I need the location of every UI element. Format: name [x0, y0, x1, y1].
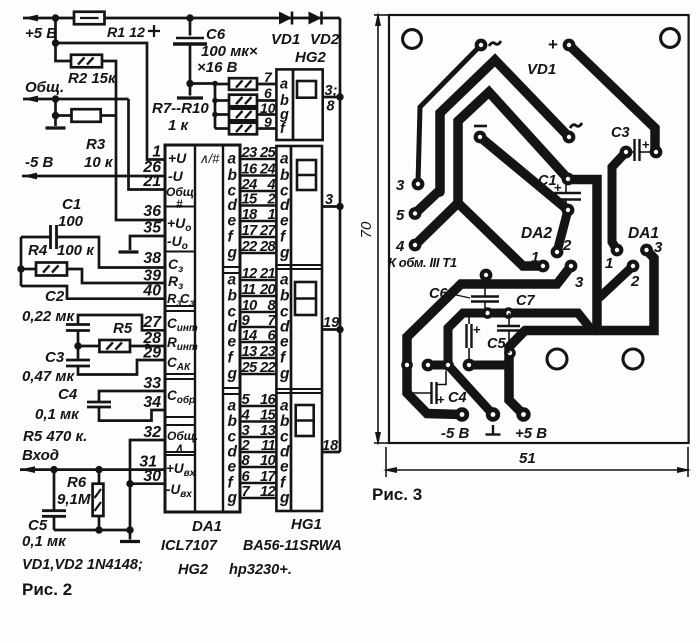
svg-text:40: 40 [142, 283, 161, 300]
wire Общ to pin 21 [52, 95, 165, 189]
op-amp U DA1 ICL7107 IC body [165, 145, 240, 512]
svg-text:11: 11 [261, 438, 275, 454]
wire Общ down to R3 left [52, 99, 72, 126]
svg-text:1: 1 [605, 255, 613, 272]
svg-text:a: a [280, 151, 289, 168]
mounting hole bottom right [623, 349, 643, 369]
svg-text:10 к: 10 к [84, 154, 114, 171]
svg-text:DA2: DA2 [521, 225, 552, 242]
label HG1 BA56-11SRWA [243, 516, 342, 554]
resistor R10 [229, 114, 276, 134]
pad C5 [463, 359, 476, 372]
pad DA2 pin3 [565, 260, 584, 291]
pad C1 bottom [562, 204, 575, 217]
svg-text:VD1: VD1 [527, 61, 556, 78]
svg-text:0,1 мк: 0,1 мк [35, 406, 80, 423]
label DA1 ICL7107 [161, 518, 222, 554]
svg-text:g: g [227, 490, 238, 507]
svg-text:30: 30 [143, 468, 161, 485]
svg-text:С3: С3 [45, 349, 65, 366]
trace bottom rail to DA1 pin 3 [525, 250, 654, 331]
diode VD2 [309, 12, 340, 49]
svg-text:e: e [228, 334, 237, 351]
svg-text:100 мк×: 100 мк× [201, 43, 258, 60]
capacitor C7 on PCB [497, 293, 535, 353]
wire segment ladder group 1 IC to HG1 [240, 145, 276, 255]
svg-text:С4: С4 [58, 386, 78, 403]
wire pin 34 [99, 407, 165, 421]
IC function labels [166, 150, 198, 500]
svg-text:R5: R5 [113, 320, 133, 337]
svg-text:Общ.: Общ. [167, 429, 198, 443]
svg-text:36: 36 [143, 203, 161, 220]
svg-text:R7--R10: R7--R10 [152, 100, 209, 117]
svg-text:23: 23 [241, 145, 259, 161]
wire +5V rail to C6 and diodes [52, 14, 340, 21]
svg-text:a: a [228, 398, 237, 415]
trace C1 top to center vertical [568, 180, 597, 331]
trace chevron VD1 outer [415, 60, 569, 214]
svg-text:34: 34 [143, 394, 161, 411]
svg-text:32: 32 [143, 424, 161, 441]
svg-text:С5: С5 [487, 336, 506, 352]
svg-text:b: b [228, 167, 238, 184]
terminal -5V arrow [22, 154, 165, 179]
svg-text:BA56-11SRWA: BA56-11SRWA [243, 538, 342, 554]
pad C6 top [480, 269, 493, 282]
trace DA1 pin 2 to center vertical [600, 266, 633, 297]
note R5 470k [23, 428, 87, 445]
trace mid horizontal [448, 313, 592, 365]
ground at R3 left [46, 126, 66, 129]
label VD1 PCB [527, 61, 556, 78]
svg-text:+: + [554, 180, 562, 195]
svg-text:2: 2 [266, 192, 276, 208]
svg-text:Рис. 2: Рис. 2 [22, 580, 72, 599]
svg-text:+5 В: +5 В [25, 25, 57, 42]
resistor R1 [74, 12, 145, 41]
trace pad A to pad B [428, 361, 448, 370]
svg-text:20: 20 [259, 282, 277, 298]
svg-text:b: b [280, 413, 290, 430]
svg-text:17: 17 [260, 469, 277, 485]
svg-text:9: 9 [264, 114, 272, 130]
svg-text:27: 27 [142, 314, 162, 331]
svg-text:2: 2 [241, 438, 251, 454]
svg-text:1 к: 1 к [168, 117, 190, 134]
trace minus to C1 bottom [480, 137, 568, 210]
svg-text:12: 12 [242, 266, 259, 282]
svg-text:100 к: 100 к [57, 242, 95, 259]
dimension 70 vertical [358, 12, 389, 446]
svg-text:-5 В: -5 В [441, 425, 470, 442]
svg-text:DA1: DA1 [628, 225, 659, 242]
svg-text:+: + [642, 137, 650, 152]
svg-text:a: a [280, 398, 289, 415]
svg-text:22: 22 [241, 239, 259, 255]
pad row B [442, 359, 454, 371]
svg-text:R6: R6 [67, 474, 87, 491]
wire pin 32 to common vertical [126, 440, 165, 534]
svg-text:a: a [280, 272, 289, 289]
pad 3 left [396, 177, 424, 194]
svg-text:21: 21 [142, 173, 161, 190]
svg-text:2: 2 [630, 273, 640, 290]
svg-text:e: e [228, 213, 237, 230]
wire pin 35 to ground [130, 236, 165, 250]
IC segment letters group 3 [227, 398, 238, 507]
svg-text:13: 13 [242, 344, 259, 360]
resistor R7 [229, 69, 276, 90]
svg-text:1: 1 [531, 249, 539, 266]
svg-text:51: 51 [519, 450, 536, 467]
svg-text:R4: R4 [28, 242, 48, 259]
pad +5V [515, 407, 547, 442]
svg-text:g: g [279, 490, 290, 507]
svg-text:b: b [228, 288, 238, 305]
trace pad C7 row [469, 361, 509, 370]
capacitor C1 on PCB [538, 173, 581, 205]
pad C3 left [620, 146, 633, 159]
PCB board outline [389, 15, 689, 443]
svg-text:24: 24 [259, 162, 276, 178]
svg-text:13: 13 [260, 423, 277, 439]
pad C7 bottom [504, 347, 516, 359]
svg-text:16: 16 [260, 392, 277, 408]
ground pin 35 [119, 250, 139, 253]
svg-text:+: + [437, 392, 445, 407]
wire HG1 pin 3 [322, 192, 340, 208]
svg-text:R2 15к: R2 15к [68, 70, 117, 87]
IC pin numbers left [139, 144, 162, 486]
display HG2 [276, 49, 326, 140]
note VD1,VD2 1N4148; HG2 hp3230+. [22, 557, 292, 578]
svg-text:С4: С4 [448, 390, 467, 406]
capacitor C4 on PCB [409, 371, 467, 407]
svg-text:-U: -U [168, 168, 184, 184]
capacitor C3 on PCB [611, 125, 650, 161]
pad DA1 pin3 [640, 239, 663, 256]
svg-text:+5 В: +5 В [515, 425, 547, 442]
svg-text:g: g [227, 245, 238, 262]
svg-text:e: e [280, 213, 289, 230]
node C2/C3/R5 [74, 331, 99, 361]
svg-text:hp3230+.: hp3230+. [229, 562, 292, 578]
pad ground [486, 407, 501, 434]
wire R2 right to R3 right and pin 36 [102, 61, 165, 220]
svg-text:18: 18 [242, 207, 259, 223]
trace tilde to pad 3 [418, 45, 481, 184]
svg-text:70: 70 [358, 221, 375, 238]
wire R4 right to pin 39 [67, 269, 165, 283]
svg-text:0,47 мк: 0,47 мк [22, 368, 75, 385]
svg-text:3: 3 [396, 177, 405, 194]
svg-text:35: 35 [143, 220, 161, 237]
svg-text:100: 100 [58, 213, 84, 230]
capacitor C2 [22, 288, 90, 331]
terminal Общ arrow [23, 79, 129, 102]
trace C1 bottom to DA2 pin 2 [557, 210, 568, 252]
svg-text:С2: С2 [45, 288, 65, 305]
capacitor C4 [35, 386, 111, 423]
pad tilde top [475, 39, 501, 52]
svg-text:11: 11 [242, 282, 256, 298]
svg-text:e: e [228, 459, 237, 476]
resistor R3 [72, 109, 117, 171]
label DA2 [521, 225, 552, 242]
svg-text:12: 12 [260, 484, 277, 500]
svg-text:a: a [280, 77, 288, 93]
wire bottom rail to ground [54, 526, 130, 539]
svg-text:R3: R3 [86, 136, 106, 153]
svg-text:g: g [279, 366, 290, 383]
svg-text:VD1: VD1 [271, 31, 300, 48]
wire right bus [336, 18, 343, 452]
wire +5V branch to pin 1 [52, 18, 165, 160]
pad DA2 pin2 [551, 237, 572, 258]
wire C1 right to pin 38 [57, 237, 166, 268]
svg-text:6: 6 [264, 85, 272, 101]
pad plus top [548, 35, 575, 54]
svg-text:g: g [227, 366, 238, 383]
svg-text:21: 21 [259, 266, 276, 282]
wire C2 top to pin 27 [78, 315, 165, 330]
svg-text:14: 14 [242, 328, 258, 344]
wire HG1 pin 19 [322, 315, 340, 331]
ground C6 [177, 96, 203, 99]
pad C1 top [562, 173, 575, 186]
terminal +5V arrow [23, 15, 74, 42]
trace outer curve to -5V [407, 266, 571, 415]
wire R5 right to pin 28 [130, 343, 165, 348]
svg-text:1: 1 [152, 144, 161, 161]
svg-text:1: 1 [267, 207, 275, 223]
svg-text:b: b [280, 167, 290, 184]
svg-text:3;: 3; [325, 83, 338, 99]
svg-text:Общ.: Общ. [25, 79, 64, 96]
ground input common [120, 540, 140, 543]
pad C4 [422, 359, 435, 372]
svg-text:HG2: HG2 [178, 562, 208, 578]
svg-text:2: 2 [562, 237, 572, 254]
resistor R4 [28, 242, 95, 276]
svg-text:5: 5 [396, 207, 405, 224]
svg-text:С3: С3 [611, 125, 630, 141]
pad mid left [482, 307, 494, 319]
svg-text:∧: ∧ [175, 442, 183, 454]
svg-text:a: a [228, 151, 237, 168]
svg-text:16: 16 [242, 162, 259, 178]
capacitor C3 [22, 349, 90, 385]
terminal Вход arrow [20, 447, 165, 473]
wire pin 30 [130, 482, 165, 485]
svg-text:25: 25 [241, 360, 259, 376]
svg-text:К обм. III Т1: К обм. III Т1 [388, 255, 457, 270]
resistor R2 [68, 55, 117, 87]
svg-text:10: 10 [260, 453, 277, 469]
resistor R9 [229, 100, 276, 120]
label Рис. 2 [22, 580, 72, 599]
svg-text:e: e [280, 334, 289, 351]
svg-text:17: 17 [242, 223, 259, 239]
svg-text:29: 29 [142, 345, 161, 362]
svg-text:+: + [473, 322, 481, 337]
svg-text:VD2: VD2 [310, 31, 340, 48]
svg-text:HG1: HG1 [291, 516, 322, 533]
svg-text:С6: С6 [429, 286, 448, 302]
svg-text:15: 15 [242, 192, 259, 208]
svg-text:4: 4 [395, 238, 405, 255]
svg-text:25: 25 [259, 145, 277, 161]
svg-text:b: b [280, 288, 290, 305]
pad row left [401, 359, 413, 371]
capacitor C6 [148, 18, 258, 84]
IC segment letters group 2 [227, 272, 238, 383]
svg-text:38: 38 [143, 250, 161, 267]
svg-text:Вход: Вход [22, 447, 59, 464]
pad tilde mid [563, 123, 582, 143]
svg-text:e: e [280, 459, 289, 476]
wire C1 left / R4 left rail [17, 237, 50, 286]
svg-text:10: 10 [242, 298, 259, 314]
svg-text:23: 23 [259, 344, 277, 360]
svg-text:HG2: HG2 [295, 49, 327, 66]
svg-text:VD1,VD2 1N4148;: VD1,VD2 1N4148; [22, 557, 143, 573]
svg-text:27: 27 [259, 223, 277, 239]
pad C3 right [650, 146, 663, 159]
pad 4 left [395, 238, 421, 255]
wire HG1 pin 18 [321, 438, 340, 454]
svg-text:8: 8 [327, 99, 336, 115]
bus R7-R10 left [152, 81, 229, 134]
wire +5V branch to R2 [56, 43, 72, 61]
svg-text:R5 470 к.: R5 470 к. [23, 428, 87, 445]
resistor R8 [229, 85, 276, 106]
label K obm III T1 [388, 255, 457, 270]
svg-text:×16 В: ×16 В [197, 59, 238, 76]
svg-text:9,1М: 9,1М [57, 491, 91, 508]
svg-text:+: + [548, 35, 558, 54]
svg-text:R1 12: R1 12 [107, 25, 145, 41]
mounting hole top right [661, 29, 680, 48]
svg-text:b: b [228, 413, 238, 430]
svg-text:С6: С6 [206, 26, 226, 43]
capacitor C5 [22, 466, 67, 550]
svg-text:7: 7 [264, 69, 273, 85]
svg-text:18: 18 [322, 438, 339, 454]
svg-text:3: 3 [325, 192, 333, 208]
svg-text:С7: С7 [516, 293, 535, 309]
pad DA2 pin1 [531, 249, 549, 272]
wire segment ladder group 2 IC to HG1 [240, 266, 276, 376]
trace ground diagonal [448, 365, 493, 415]
svg-text:28: 28 [259, 239, 277, 255]
svg-text:0,1 мк: 0,1 мк [22, 533, 67, 550]
pad -5V [441, 407, 470, 442]
IC segment letters group 1 [227, 151, 238, 262]
trace plus to C3 [569, 45, 655, 152]
svg-text:-5 В: -5 В [25, 154, 54, 171]
pad DA1 pin1 [605, 244, 623, 272]
wire segment ladder group 3 IC to HG1 [240, 392, 276, 500]
svg-text:+U: +U [168, 150, 187, 166]
mounting hole bottom left [547, 349, 567, 369]
svg-text:15: 15 [260, 408, 277, 424]
wire to pin 40 [21, 286, 165, 299]
svg-text:Рис. 3: Рис. 3 [372, 485, 422, 504]
resistor R5 [99, 320, 132, 352]
trace branch to DA2 pin 1 [458, 203, 543, 266]
trace +5V curl [509, 331, 525, 415]
dimension 51 horizontal [383, 447, 691, 477]
capacitor C1 [51, 196, 84, 249]
wire C6 minus to resistor bus and ground [186, 80, 215, 96]
trace chevron VD1 inner [415, 92, 568, 245]
capacitor C5 on PCB [467, 313, 507, 363]
svg-text:DA1: DA1 [192, 518, 222, 535]
wire HG2 pins 3;8 to bus [323, 83, 340, 115]
wire C3 bottom to pin 29 [78, 360, 165, 375]
svg-text:С1: С1 [62, 196, 81, 213]
svg-text:3: 3 [575, 274, 584, 291]
svg-text:d: d [280, 197, 290, 214]
mounting hole top left [403, 30, 422, 49]
svg-text:4: 4 [241, 408, 250, 424]
svg-text:#: # [176, 197, 183, 211]
pad DA1 pin2 [627, 260, 640, 290]
svg-text:С5: С5 [28, 517, 48, 534]
label Рис. 3 [372, 485, 422, 504]
pad 5 left [396, 207, 421, 224]
pad mid C7 [503, 307, 515, 319]
svg-text:ICL7107: ICL7107 [161, 538, 218, 554]
svg-text:g: g [279, 245, 290, 262]
diode VD1 [271, 12, 300, 49]
svg-text:22: 22 [259, 360, 277, 376]
svg-text:∧/#: ∧/# [199, 151, 220, 166]
trace C3 left to DA1 pin 1 [612, 152, 626, 250]
resistor R6 [57, 466, 103, 530]
svg-text:d: d [228, 197, 238, 214]
display HG1 [276, 146, 322, 511]
capacitor C6 on PCB [429, 284, 499, 313]
label DA1 [628, 225, 659, 242]
svg-text:a: a [228, 272, 237, 289]
wire pin 33 [99, 391, 165, 402]
svg-text:0,22 мк: 0,22 мк [22, 308, 75, 325]
svg-text:33: 33 [143, 375, 161, 392]
pad minus [474, 126, 487, 143]
